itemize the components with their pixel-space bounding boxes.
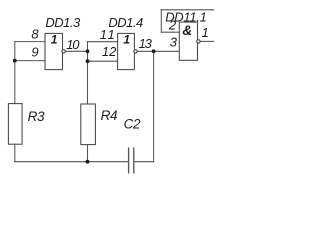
gate DD1.4 body: [118, 33, 135, 69]
wire DD11.1 pin2 riser: [160, 10, 162, 32]
svg-text:1: 1: [51, 33, 58, 47]
resistor R3 body: [8, 104, 22, 145]
wire pin8 input DD1.3: [15, 41, 45, 43]
svg-text:1: 1: [202, 25, 209, 40]
resistor R4 body: [81, 104, 96, 145]
svg-text:8: 8: [31, 26, 39, 41]
wire R4 bottom to bottom rail: [87, 145, 89, 162]
junction node pin9/left rail: [13, 59, 17, 63]
junction node DD1.3 out / rail B: [86, 49, 90, 53]
wire DD11.1 output pin1 exits right edge: [200, 40, 214, 42]
inversion bubble DD1.3 output: [62, 50, 65, 53]
junction node R4 / bottom rail: [86, 160, 90, 164]
svg-text:11: 11: [100, 27, 117, 42]
wire riser C2 to DD1.4 output node: [153, 51, 155, 161]
inversion bubble DD11.1 output: [197, 40, 200, 43]
svg-text:C2: C2: [124, 117, 141, 132]
capacitor C2 plates: [129, 148, 134, 174]
wire pin9 input DD1.3: [15, 60, 45, 62]
svg-text:13: 13: [139, 36, 153, 51]
svg-text:&: &: [182, 23, 192, 38]
wire pin12 input DD1.4: [88, 60, 118, 62]
svg-text:3: 3: [170, 35, 178, 50]
junction node pin12 / rail B: [86, 59, 90, 63]
wire left rail vertical: [14, 42, 16, 104]
svg-text:9: 9: [31, 45, 38, 60]
wire DD11.1 pin2 horizontal: [161, 31, 179, 33]
gate DD1.3 body: [45, 33, 63, 69]
svg-text:1: 1: [123, 33, 130, 47]
wire node B rail vertical: [87, 42, 89, 104]
wire pin11 input DD1.4: [88, 41, 118, 43]
wire DD1.3 output to node B: [66, 50, 88, 52]
svg-text:12: 12: [102, 44, 117, 59]
svg-text:2: 2: [168, 18, 177, 33]
gate DD11.1 body: [179, 22, 197, 60]
svg-text:10: 10: [66, 37, 80, 52]
wire top feedback exits right edge: [161, 9, 214, 11]
svg-text:R3: R3: [28, 109, 45, 124]
svg-text:DD1.3: DD1.3: [45, 15, 81, 30]
wire R3 bottom to bottom rail: [14, 144, 16, 162]
svg-text:R4: R4: [101, 108, 118, 123]
wire bottom rail: [15, 161, 129, 163]
wire DD1.4 output to DD11.1 pin3: [137, 50, 179, 52]
inversion bubble DD1.4 output: [134, 50, 137, 53]
wire capacitor right plate to riser: [134, 161, 154, 163]
junction node DD1.4 out / C2 riser: [152, 49, 156, 53]
